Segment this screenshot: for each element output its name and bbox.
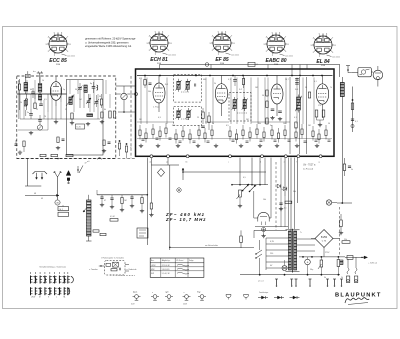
svg-text:2M: 2M <box>246 119 249 121</box>
pin symbol <box>309 279 311 285</box>
right small cap <box>351 118 354 120</box>
svg-text:10,7: 10,7 <box>285 79 289 81</box>
switch bus <box>232 184 268 186</box>
mid cap <box>279 202 282 204</box>
resistor <box>277 133 279 139</box>
phono parts <box>106 263 111 266</box>
capacitor <box>156 137 159 139</box>
pin symbol <box>327 279 329 285</box>
svg-text:2: 2 <box>212 50 213 52</box>
left drop wire <box>26 159 28 187</box>
svg-text:2: 2 <box>48 51 49 53</box>
svg-text:2k: 2k <box>214 83 216 85</box>
coupling lower parts <box>118 143 120 149</box>
svg-text:gemessen mit Röhrenv. 20 kΩ/V: gemessen mit Röhrenv. 20 kΩ/V Spannungs- <box>85 37 136 41</box>
osc cap pair <box>92 86 96 88</box>
resistor <box>159 131 161 137</box>
svg-text:Fi 1: Fi 1 <box>165 84 168 86</box>
coil lower <box>38 95 41 101</box>
FM dipole antenna <box>33 172 48 175</box>
resistor <box>235 134 237 140</box>
svg-text:0,1: 0,1 <box>139 78 142 80</box>
svg-text:von unten: von unten <box>168 54 176 57</box>
svg-text:von unten: von unten <box>332 56 340 59</box>
phono leads <box>99 265 105 267</box>
input coil dark <box>38 84 42 93</box>
bottom left res pair <box>93 230 99 232</box>
resistor <box>189 134 191 140</box>
IF transformer I lower coils <box>177 111 180 118</box>
svg-text:5: 5 <box>218 31 219 33</box>
terminal circle antenna input <box>135 93 138 96</box>
svg-text:7k: 7k <box>330 87 332 89</box>
svg-text:Skala: Skala <box>133 292 137 294</box>
tuner trimmer circle <box>37 125 42 130</box>
cup socket <box>244 295 249 298</box>
svg-text:100: 100 <box>283 123 286 125</box>
corner drop wires <box>150 158 152 165</box>
switch arm 2 <box>250 185 257 192</box>
svg-text:eingestellte Werte ±10% Abweic: eingestellte Werte ±10% Abweichung zul. <box>85 44 132 48</box>
variable coil osc <box>69 97 72 105</box>
rectifier bridge <box>315 230 333 248</box>
svg-text:8: 8 <box>334 45 335 47</box>
resistor <box>229 131 231 137</box>
svg-text:1: 1 <box>54 55 55 57</box>
variable cap osc 2 <box>95 101 99 103</box>
svg-text:v. Tonabn.: v. Tonabn. <box>89 269 98 271</box>
svg-text:0,1: 0,1 <box>314 81 317 83</box>
svg-text:Zweitlautspr.: Zweitlautspr. <box>259 291 269 294</box>
svg-text:5: 5 <box>272 32 273 34</box>
AF h-res <box>110 219 118 222</box>
svg-text:6: 6 <box>61 32 62 34</box>
tuner res B <box>25 99 27 105</box>
antenna coil w core <box>24 83 28 92</box>
svg-text:L: L <box>56 296 57 298</box>
svg-text:1k: 1k <box>42 80 44 82</box>
resistor <box>152 129 154 135</box>
svg-text:30: 30 <box>75 89 77 91</box>
capacitor <box>179 140 182 142</box>
svg-text:5k: 5k <box>351 169 353 171</box>
svg-text:6: 6 <box>279 32 280 34</box>
signature <box>345 298 369 303</box>
tuner signal rail <box>17 93 67 95</box>
resistor <box>139 130 141 136</box>
arrow junction <box>182 168 184 180</box>
tube base diagram ECH 81 <box>150 34 168 52</box>
svg-text:b1: b1 <box>186 162 188 164</box>
svg-text:4: 4 <box>48 37 49 39</box>
V5 cathode parts <box>315 110 318 117</box>
mid h-res <box>285 201 292 203</box>
small lamp <box>177 188 181 192</box>
svg-text:1k: 1k <box>212 123 214 125</box>
output tube V5 envelope <box>316 84 328 104</box>
svg-text:KW: KW <box>151 273 154 275</box>
svg-text:0,1: 0,1 <box>355 121 358 123</box>
svg-text:49: 49 <box>41 198 43 200</box>
right link <box>337 202 352 204</box>
svg-text:1: 1 <box>218 54 219 56</box>
svg-text:3: 3 <box>146 43 147 45</box>
svg-text:0,1: 0,1 <box>294 117 297 119</box>
svg-text:a1: a1 <box>149 162 151 164</box>
volume pot mid <box>239 190 242 197</box>
EM80 magic eye <box>258 212 269 218</box>
svg-text:8p: 8p <box>90 83 92 85</box>
IF tube V2 envelope <box>153 83 165 103</box>
svg-text:6k: 6k <box>104 109 106 111</box>
svg-text:0,1: 0,1 <box>228 79 231 81</box>
svg-text:2: 2 <box>149 50 150 52</box>
svg-text:m1: m1 <box>87 161 90 163</box>
svg-text:a2: a2 <box>166 162 168 164</box>
chassis socket <box>153 295 157 299</box>
capacitor <box>274 139 277 141</box>
svg-text:7: 7 <box>168 36 169 38</box>
svg-text:25: 25 <box>197 117 199 119</box>
dial lamp branch <box>150 165 152 203</box>
svg-text:1M: 1M <box>308 125 311 127</box>
AM antenna Y <box>57 177 59 199</box>
IF transformer I upper shield <box>174 74 202 102</box>
svg-text:170: 170 <box>318 105 321 107</box>
tuner cluster mid <box>34 103 36 109</box>
svg-text:UKW: UKW <box>151 265 156 267</box>
svg-text:u. Universalmessgerät 333, gem: u. Universalmessgerät 333, gemessen <box>85 40 129 44</box>
resistor <box>211 130 213 136</box>
box terminals bottom <box>150 155 153 158</box>
coupling dashed vertical <box>130 76 132 159</box>
svg-text:2: 2 <box>313 52 314 54</box>
capacitor <box>207 140 210 142</box>
drop wires <box>239 158 241 185</box>
transformer right leads <box>297 238 316 240</box>
svg-text:ZF~ 10,7 MHz: ZF~ 10,7 MHz <box>165 217 207 222</box>
svg-text:B 250: B 250 <box>321 237 328 239</box>
switch arm 1 <box>243 184 249 191</box>
jack symbol <box>258 297 262 299</box>
svg-text:a: a <box>184 292 185 294</box>
mid verticals <box>289 77 291 154</box>
IF transformer I upper coils <box>177 81 180 89</box>
capacitor <box>193 140 196 142</box>
left col components <box>202 112 204 119</box>
svg-text:0,5: 0,5 <box>226 125 229 127</box>
chassis socket <box>167 295 171 299</box>
svg-text:1M: 1M <box>254 185 257 187</box>
svg-text:15: 15 <box>36 109 38 111</box>
ground <box>215 144 217 146</box>
IF tube V3 envelope <box>215 84 227 104</box>
capacitor <box>328 139 331 141</box>
phono bottom lead <box>110 274 135 277</box>
svg-text:4: 4 <box>149 36 150 38</box>
svg-text:5k: 5k <box>324 277 326 279</box>
diode pair <box>277 184 281 188</box>
svg-text:am Netzschalter: am Netzschalter <box>205 244 218 247</box>
svg-text:ZF-Kreis /: ZF-Kreis / <box>176 260 184 262</box>
pot under rail <box>320 260 323 267</box>
svg-text:0,5 M: 0,5 M <box>110 216 115 218</box>
svg-text:von unten: von unten <box>231 54 239 57</box>
svg-text:48: 48 <box>34 193 36 195</box>
svg-text:7: 7 <box>231 36 232 38</box>
svg-text:BLAUPUNKT: BLAUPUNKT <box>335 293 382 299</box>
svg-text:0,1: 0,1 <box>284 208 287 210</box>
svg-text:3: 3 <box>45 44 46 46</box>
svg-text:5p: 5p <box>63 89 65 91</box>
svg-text:Ber.: Ber. <box>151 260 155 262</box>
coupling trimmer <box>121 93 127 99</box>
alignment table <box>150 258 204 277</box>
bottom dashed chassis line <box>17 158 135 160</box>
svg-text:6: 6 <box>326 33 327 35</box>
resistor <box>249 132 251 138</box>
svg-text:5k: 5k <box>305 87 307 89</box>
V2 input stub <box>144 80 146 86</box>
resistor <box>301 129 303 135</box>
tuner grounds <box>30 131 32 133</box>
svg-text:5: 5 <box>155 31 156 33</box>
resistor <box>175 134 177 140</box>
svg-text:3: 3 <box>263 44 264 46</box>
svg-text:b-a: b-a <box>33 71 36 73</box>
res under rail <box>337 260 340 267</box>
svg-text:Uk - 7027 a: Uk - 7027 a <box>303 164 316 167</box>
svg-text:1. Fass: 1. Fass <box>153 107 160 109</box>
right feed wire <box>352 87 354 133</box>
svg-text:275V: 275V <box>325 252 330 254</box>
capacitor <box>142 138 145 140</box>
svg-text:Ja Fassad: Ja Fassad <box>303 169 314 171</box>
primary top wire <box>254 229 287 231</box>
svg-text:Folge: Folge <box>189 260 194 262</box>
svg-text:510-1620: 510-1620 <box>162 269 170 271</box>
transformer core <box>291 229 293 273</box>
ground <box>177 144 179 146</box>
pilot lamp <box>282 266 287 271</box>
feed resistor <box>240 236 243 243</box>
chassis socket <box>185 295 189 299</box>
tuner mid rail 2 <box>20 118 100 120</box>
pin symbol <box>341 279 343 285</box>
resistor <box>318 134 320 140</box>
ground <box>197 144 199 146</box>
tuner res A <box>18 84 20 90</box>
svg-text:8: 8 <box>287 44 288 46</box>
svg-text:4: 4 <box>212 36 213 38</box>
resistor <box>182 131 184 137</box>
AF branch 4 <box>130 196 133 198</box>
circle node 45 <box>55 200 60 205</box>
svg-text:2M: 2M <box>139 119 142 121</box>
variable cap osc <box>87 100 91 102</box>
resistor <box>263 132 265 138</box>
oscillator shield sub-box <box>67 79 104 155</box>
tuner bottom row <box>71 113 73 119</box>
capacitor <box>169 137 172 139</box>
box mid bus <box>137 121 173 123</box>
svg-text:300: 300 <box>172 125 175 127</box>
power bottom rail <box>240 274 340 276</box>
accessory stub connector <box>346 65 350 67</box>
resistor <box>256 129 258 135</box>
aux dark box <box>340 260 343 265</box>
left long vertical <box>146 158 148 245</box>
svg-text:9: 9 <box>67 51 68 53</box>
antenna trimmer on top edge <box>26 74 31 77</box>
svg-text:UKW: UKW <box>31 296 35 298</box>
svg-text:8: 8 <box>170 43 171 45</box>
svg-text:7: 7 <box>332 38 333 40</box>
accessory wires <box>352 72 358 74</box>
h-res on dashed line <box>40 154 46 156</box>
tuner fine mesh <box>18 80 20 119</box>
svg-text:1: 1 <box>272 55 273 57</box>
resistor <box>325 130 327 136</box>
svg-text:Licht: Licht <box>165 291 169 294</box>
svg-text:e: e <box>284 162 285 164</box>
antenna jack <box>37 72 43 74</box>
ground <box>240 144 242 146</box>
pin symbol <box>334 279 336 285</box>
IF transformer II shield <box>229 93 251 122</box>
ratio det components <box>295 78 299 80</box>
svg-text:12: 12 <box>65 109 67 111</box>
above-box heater line <box>160 64 340 66</box>
jack symbol <box>290 297 294 299</box>
svg-text:Schalterstellung u. Tastensatz: Schalterstellung u. Tastensatz <box>39 266 66 269</box>
svg-text:50: 50 <box>262 95 264 97</box>
IF transformer I lower shield <box>174 106 202 125</box>
ground <box>140 144 142 146</box>
chassis socket <box>135 295 139 299</box>
transformer left leads <box>266 237 288 239</box>
demod tube V4 envelope <box>271 84 283 104</box>
resistor <box>242 130 244 136</box>
chassis socket <box>200 295 204 299</box>
ground <box>316 144 318 146</box>
speaker pot circle <box>373 70 383 80</box>
svg-text:70: 70 <box>44 116 46 118</box>
svg-text:50k: 50k <box>148 91 151 93</box>
jack symbol <box>274 297 278 299</box>
crystal diamond <box>158 169 165 177</box>
tube base diagram EABC 80 <box>267 35 285 53</box>
svg-text:47: 47 <box>104 200 106 202</box>
svg-text:0,3: 0,3 <box>158 117 161 119</box>
svg-text:MW: MW <box>151 269 155 271</box>
capacitor <box>288 139 291 141</box>
electro cap <box>305 259 311 265</box>
svg-text:5: 5 <box>319 33 320 35</box>
svg-text:1: 1 <box>155 54 156 56</box>
pin symbol <box>291 279 293 285</box>
AF branch 3 <box>121 198 123 204</box>
svg-text:10k: 10k <box>263 199 266 201</box>
svg-text:3: 3 <box>310 45 311 47</box>
switch contacts <box>256 250 262 254</box>
tuner res C <box>24 101 26 107</box>
eye feed wires <box>253 191 255 218</box>
aux connectors <box>346 276 349 283</box>
osc coil dark <box>84 85 87 93</box>
aux out line <box>345 256 366 258</box>
resistor <box>198 130 200 136</box>
ground <box>259 144 261 146</box>
tuner bottom caps <box>29 113 33 115</box>
osc res <box>100 99 102 105</box>
svg-text:n. Endstufe: n. Endstufe <box>126 268 137 271</box>
rect output res <box>342 241 350 244</box>
svg-text:25k: 25k <box>344 239 347 241</box>
ferrite antenna arrow <box>66 171 71 176</box>
tube base diagram EF 85 <box>213 34 231 52</box>
resistor <box>271 130 273 136</box>
svg-text:Fi 2: Fi 2 <box>239 89 242 91</box>
svg-text:5n: 5n <box>270 125 272 127</box>
capacitor <box>304 140 307 142</box>
svg-text:g: g <box>319 162 320 164</box>
tube base diagram ECC 85 <box>49 35 67 53</box>
svg-text:2k: 2k <box>20 102 22 104</box>
long vertical wire <box>169 165 171 250</box>
capacitor <box>315 139 318 141</box>
resistor <box>204 133 206 139</box>
svg-text:460: 460 <box>203 79 206 81</box>
svg-text:4: 4 <box>313 38 314 40</box>
svg-text:+ 54V an: + 54V an <box>368 263 378 265</box>
FM tube ECC85 envelope <box>50 82 61 101</box>
svg-text:f. Plattenspieler m. Kristall-: f. Plattenspieler m. Kristall-S. <box>101 257 125 260</box>
IF transformer II coils <box>233 100 236 109</box>
svg-text:8: 8 <box>233 43 234 45</box>
svg-text:50k: 50k <box>186 119 189 121</box>
switch on dashed line <box>97 157 102 160</box>
right RC pair <box>343 164 346 171</box>
svg-text:9: 9 <box>285 51 286 53</box>
svg-text:7: 7 <box>67 37 68 39</box>
svg-text:9: 9 <box>168 50 169 52</box>
switch feed line <box>170 246 254 248</box>
dial lamp lower <box>326 200 331 205</box>
capacitor <box>232 139 235 141</box>
svg-text:6: 6 <box>225 31 226 33</box>
svg-text:1: 1 <box>319 56 320 58</box>
right lower resistor <box>340 220 343 227</box>
tube base diagram EL 84 <box>314 36 332 54</box>
svg-text:25: 25 <box>18 81 20 83</box>
svg-text:4: 4 <box>266 37 267 39</box>
svg-text:von unten: von unten <box>67 55 75 58</box>
svg-text:10k: 10k <box>258 123 261 125</box>
svg-text:3: 3 <box>209 43 210 45</box>
tuner cap A <box>31 91 35 93</box>
svg-text:7: 7 <box>285 37 286 39</box>
svg-text:2n: 2n <box>281 189 283 191</box>
volume bar arrow <box>83 208 87 212</box>
pin symbol <box>295 279 297 285</box>
tuning shaft dashed <box>275 162 277 230</box>
tuner cap trim cluster <box>78 87 82 89</box>
switch box M2 <box>58 207 69 211</box>
output transformer <box>340 83 344 97</box>
AF rail <box>97 194 147 196</box>
V3 top components <box>233 79 237 81</box>
